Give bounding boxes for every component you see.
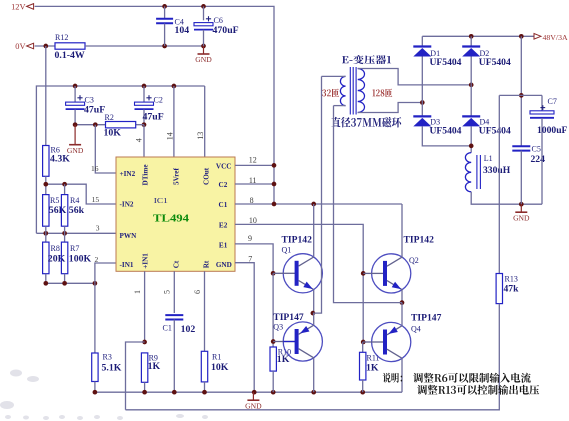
svg-text:0.1-4W: 0.1-4W bbox=[55, 50, 85, 61]
wire: feedback jog to bottom bbox=[126, 342, 145, 410]
svg-text:48V/3A: 48V/3A bbox=[543, 33, 568, 42]
resistor R9 bbox=[141, 353, 160, 382]
note 说明： bbox=[383, 373, 402, 383]
svg-text:+IN1: +IN1 bbox=[142, 253, 150, 269]
wire: 48V sense row bbox=[499, 94, 542, 96]
svg-text:9: 9 bbox=[248, 234, 252, 243]
svg-text:2: 2 bbox=[95, 255, 99, 264]
transistor Q3 TIP147 bbox=[273, 312, 322, 361]
svg-text:Rt: Rt bbox=[203, 260, 211, 268]
resistor R7 bbox=[61, 242, 91, 274]
wire: Q4 upper to node B bbox=[401, 303, 403, 326]
svg-text:47k: 47k bbox=[504, 283, 520, 294]
svg-text:C7: C7 bbox=[548, 97, 557, 106]
note line2 调整R13可以控制输出电压 bbox=[417, 385, 539, 395]
transistor Q2 TIP142 bbox=[363, 235, 434, 294]
svg-text:R5: R5 bbox=[50, 196, 59, 205]
svg-text:C1: C1 bbox=[219, 201, 228, 209]
svg-text:R1: R1 bbox=[212, 353, 221, 362]
wire: PWM row (pin3 net) bbox=[36, 226, 116, 242]
svg-text:C5: C5 bbox=[532, 144, 541, 153]
svg-text:R12: R12 bbox=[55, 33, 68, 42]
diode D1 UF5404 bbox=[413, 36, 461, 102]
svg-text:10K: 10K bbox=[211, 362, 229, 373]
wire: R9 bottom bbox=[144, 382, 146, 392]
svg-text:E1: E1 bbox=[219, 242, 228, 250]
resistor R3 bbox=[92, 353, 122, 382]
svg-text:Q3: Q3 bbox=[273, 323, 283, 332]
wire: pin9 E1 to Q1/Q3 bases bbox=[235, 244, 275, 276]
svg-text:R4: R4 bbox=[70, 196, 79, 205]
capacitor C5 224 bbox=[512, 144, 545, 204]
svg-text:5.1K: 5.1K bbox=[102, 362, 122, 373]
resistor R6 bbox=[43, 146, 71, 177]
wire: pin1 +IN1 drop bbox=[142, 271, 147, 344]
capacitor C4 bbox=[156, 6, 189, 46]
inductor L1 330uH bbox=[465, 153, 510, 192]
resistor R10 bbox=[270, 347, 291, 371]
resistor R1 bbox=[201, 351, 228, 382]
svg-text:DTime: DTime bbox=[142, 164, 150, 185]
svg-text:Q2: Q2 bbox=[409, 256, 419, 265]
capacitor C1 bbox=[163, 315, 196, 392]
svg-text:6: 6 bbox=[193, 290, 202, 294]
port 0V bbox=[15, 42, 33, 51]
svg-text:R7: R7 bbox=[70, 244, 79, 253]
wire: pin11 C2 stub bbox=[235, 182, 276, 187]
transformer primary winding 32T bbox=[322, 76, 346, 105]
wire: R10 bottom bbox=[272, 371, 274, 392]
ground under C3 bbox=[74, 125, 76, 145]
svg-text:R11: R11 bbox=[367, 354, 380, 363]
svg-text:+IN2: +IN2 bbox=[120, 170, 136, 178]
svg-text:0V: 0V bbox=[15, 42, 25, 51]
wire: 5Vref top bus bbox=[36, 84, 204, 234]
svg-text:VCC: VCC bbox=[216, 162, 232, 170]
wire: Q4 lower to ground rail bbox=[401, 358, 403, 392]
svg-text:5Vref: 5Vref bbox=[173, 167, 181, 185]
svg-text:R8: R8 bbox=[51, 244, 60, 253]
resistor R13 bbox=[496, 274, 519, 304]
wire: R1 bottom bbox=[204, 382, 206, 392]
svg-text:TL494: TL494 bbox=[153, 212, 190, 224]
ground symbol on rail bbox=[252, 392, 254, 400]
svg-text:C3: C3 bbox=[85, 95, 94, 104]
svg-text:1K: 1K bbox=[366, 362, 379, 373]
svg-text:15: 15 bbox=[92, 195, 100, 204]
svg-text:1K: 1K bbox=[148, 361, 161, 372]
ground under C6 bbox=[203, 46, 205, 54]
wire: -IN1 node to R3 bbox=[94, 283, 96, 353]
svg-text:3: 3 bbox=[96, 223, 100, 232]
wire: pin12 VCC stub bbox=[235, 163, 276, 168]
svg-text:GND: GND bbox=[216, 261, 232, 269]
svg-text:C2: C2 bbox=[219, 181, 228, 189]
svg-text:UF5404: UF5404 bbox=[430, 57, 462, 68]
svg-text:47uF: 47uF bbox=[84, 104, 105, 115]
capacitor C2 bbox=[135, 86, 164, 125]
wire: -IN2 row (pin15 net) bbox=[43, 182, 116, 204]
resistor R11 bbox=[360, 352, 380, 380]
svg-text:13: 13 bbox=[196, 132, 205, 140]
svg-text:20K: 20K bbox=[48, 253, 66, 264]
svg-text:4: 4 bbox=[134, 138, 143, 142]
wire: 0V to R12 bbox=[35, 44, 55, 49]
svg-text:56K: 56K bbox=[49, 205, 67, 216]
svg-text:GND: GND bbox=[195, 55, 212, 64]
svg-text:Q4: Q4 bbox=[411, 325, 421, 334]
svg-text:Ct: Ct bbox=[173, 260, 181, 268]
transistor Q4 TIP147 bbox=[363, 313, 442, 362]
transformer T1 label: E-变压器1 bbox=[342, 55, 391, 64]
wire: pin13 COut drop bbox=[204, 86, 206, 157]
svg-text:IC1: IC1 bbox=[154, 196, 168, 205]
resistor R12 bbox=[55, 33, 86, 61]
svg-text:C6: C6 bbox=[214, 16, 223, 25]
svg-text:16: 16 bbox=[91, 164, 99, 173]
wire: R8/R7 bottom row bbox=[43, 274, 97, 286]
wire: +12V top rail bbox=[35, 4, 274, 204]
wire: primary lead B bbox=[334, 106, 403, 303]
diode D2 UF5404 bbox=[462, 36, 511, 85]
note line1 调整R6可以限制输入电流 bbox=[413, 373, 531, 383]
decorative: none (faint watermark remnants) bbox=[0, 370, 208, 421]
wire: R11 bottom bbox=[362, 380, 364, 392]
wire: Q1/Q3 base vertical bbox=[271, 273, 276, 347]
svg-text:L1: L1 bbox=[484, 154, 493, 163]
wire: pin5 Ct drop bbox=[173, 271, 175, 313]
wire: R6 bottom to divider bbox=[45, 176, 47, 194]
svg-text:PWN: PWN bbox=[120, 232, 138, 240]
svg-text:1K: 1K bbox=[277, 354, 290, 365]
svg-text:14: 14 bbox=[166, 132, 175, 140]
wire: feedback bottom run bbox=[126, 304, 500, 410]
wire: Q1 emitter to node A bbox=[311, 290, 316, 316]
wire: Q1 collector to +12 net bbox=[313, 204, 315, 257]
svg-text:Q1: Q1 bbox=[282, 246, 292, 255]
diode D4 UF5404 bbox=[462, 85, 511, 153]
wire: L1 to output ground rail bbox=[471, 192, 542, 207]
svg-text:100K: 100K bbox=[69, 253, 92, 264]
capacitor C3 bbox=[66, 86, 106, 125]
wire: R13 feed from +48V bbox=[498, 95, 500, 273]
wire: Q3 lower to ground rail bbox=[313, 358, 315, 392]
ground symbol output bbox=[520, 204, 522, 212]
wire: pin8 C1 to collectors bbox=[235, 202, 402, 207]
wire: pin6 Rt drop bbox=[204, 271, 206, 351]
svg-text:470uF: 470uF bbox=[213, 25, 239, 36]
port 48V/3A bbox=[534, 33, 568, 42]
svg-text:UF5404: UF5404 bbox=[430, 125, 462, 136]
wire: pin10 E2 to Q2/Q4 bases bbox=[235, 224, 366, 344]
svg-text:C1: C1 bbox=[163, 324, 172, 333]
resistor R4 bbox=[61, 195, 84, 227]
svg-text:COut: COut bbox=[203, 167, 211, 185]
wire: pin7 GND drop bbox=[235, 263, 254, 393]
svg-text:UF5404: UF5404 bbox=[479, 57, 511, 68]
svg-text:10K: 10K bbox=[104, 128, 122, 139]
wire: Q2 emitter to node B bbox=[400, 290, 405, 305]
diode D3 UF5404 bbox=[413, 103, 471, 146]
port 12V bbox=[11, 3, 34, 12]
wire: Q2 collector to +12 net bbox=[401, 204, 403, 257]
svg-text:R3: R3 bbox=[103, 353, 112, 362]
svg-text:330uH: 330uH bbox=[483, 165, 511, 176]
svg-text:1: 1 bbox=[133, 290, 142, 294]
wire: 0V left vertical bbox=[45, 46, 47, 146]
svg-text:224: 224 bbox=[531, 154, 546, 165]
wire: +48V vertical bbox=[519, 36, 524, 146]
svg-text:TIP142: TIP142 bbox=[404, 235, 435, 246]
svg-text:4.3K: 4.3K bbox=[50, 154, 70, 165]
wire: DTime row (pin4 net) bbox=[73, 122, 147, 157]
svg-text:UF5404: UF5404 bbox=[479, 125, 511, 136]
svg-text:102: 102 bbox=[181, 324, 196, 335]
svg-text:TIP142: TIP142 bbox=[282, 235, 313, 246]
transformer core bbox=[350, 67, 356, 115]
svg-text:R13: R13 bbox=[505, 274, 518, 283]
wire: -IN1 feed (pin2 net) bbox=[95, 263, 116, 283]
svg-text:104: 104 bbox=[175, 25, 190, 36]
svg-text:E2: E2 bbox=[219, 222, 228, 230]
resistor R8 bbox=[43, 242, 66, 274]
svg-text:56k: 56k bbox=[69, 205, 85, 216]
label 128匝 bbox=[372, 89, 392, 98]
svg-text:5: 5 bbox=[162, 290, 171, 294]
wire: +48V rail bbox=[422, 34, 535, 39]
label 32匝 bbox=[322, 89, 339, 98]
wire: R3 to ground rail bbox=[94, 382, 96, 393]
transistor Q1 TIP142 bbox=[273, 235, 322, 293]
svg-text:12: 12 bbox=[249, 156, 257, 165]
wire: Q3 upper to node A bbox=[313, 313, 315, 325]
capacitor C7 1000uF bbox=[530, 95, 568, 204]
wire: pin14 5Vref drop bbox=[173, 86, 175, 157]
svg-text:C2: C2 bbox=[154, 95, 163, 104]
svg-text:-IN2: -IN2 bbox=[120, 201, 134, 209]
transformer secondary winding 128T bbox=[358, 69, 474, 113]
svg-text:-IN1: -IN1 bbox=[120, 261, 134, 269]
svg-text:1000uF: 1000uF bbox=[537, 125, 568, 136]
svg-text:GND: GND bbox=[245, 401, 262, 410]
svg-text:7: 7 bbox=[248, 254, 252, 263]
svg-text:R2: R2 bbox=[105, 113, 114, 122]
wire: R12 to C4/C6 bottoms bbox=[85, 44, 206, 49]
svg-text:12V: 12V bbox=[11, 3, 25, 12]
svg-text:47uF: 47uF bbox=[143, 111, 164, 122]
resistor R5 bbox=[43, 195, 67, 227]
svg-text:TIP147: TIP147 bbox=[411, 313, 442, 324]
resistor R2 bbox=[104, 113, 136, 138]
wire: R11 top bbox=[362, 342, 364, 352]
svg-text:GND: GND bbox=[513, 213, 530, 222]
capacitor C6 bbox=[194, 6, 239, 46]
wire: pin16 +IN2 feed bbox=[95, 125, 116, 173]
op-amp U1 TL494 body bbox=[116, 157, 235, 271]
label 直径37MM磁环 bbox=[331, 117, 401, 128]
svg-text:TIP147: TIP147 bbox=[273, 312, 304, 323]
wire: primary lead A bbox=[313, 76, 322, 313]
wire: main ground rail bbox=[93, 390, 402, 395]
